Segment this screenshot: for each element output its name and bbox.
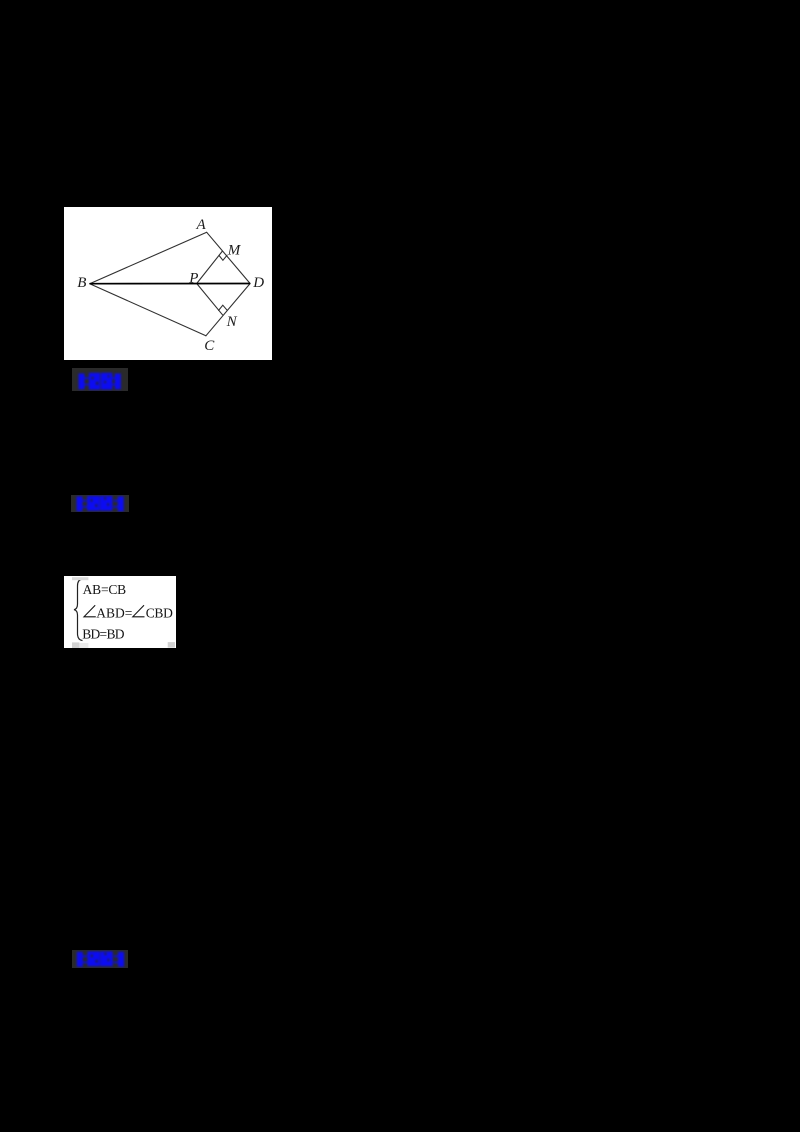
svg-text:C: C (204, 338, 215, 354)
geometry figure image (white box) (64, 207, 272, 360)
right angle mark at N (219, 305, 228, 310)
wire BD (diagonal, bold) (90, 283, 250, 285)
highlighted label 2 (blue blurred CJK text on dark box) (71, 495, 129, 512)
highlighted label 3 (blue blurred CJK text on dark box) (72, 950, 128, 968)
svg-text:CBD: CBD (146, 605, 173, 620)
svg-text:N: N (226, 314, 238, 330)
angle symbol 1 (84, 605, 96, 617)
right angle mark at M (219, 255, 227, 260)
selection handle top-left (72, 577, 88, 580)
svg-text:BD=BD: BD=BD (82, 627, 125, 642)
selection handle bottom-right (168, 642, 175, 648)
wire AD (207, 232, 250, 283)
wire PM (197, 251, 223, 283)
svg-text:A: A (196, 217, 207, 233)
svg-text:D: D (252, 275, 264, 291)
angle symbol 2 (133, 605, 145, 617)
selection handle bottom-left (72, 642, 79, 648)
wire BC (90, 284, 206, 336)
svg-text:ABD=: ABD= (96, 605, 132, 620)
svg-text:M: M (227, 242, 242, 258)
left curly brace (74, 579, 83, 641)
svg-text:AB=CB: AB=CB (83, 582, 127, 597)
equation system image (white box with brace, selected handles) (64, 576, 176, 648)
highlighted label 1 (blue blurred CJK text on dark box) (72, 368, 128, 391)
svg-text:B: B (77, 275, 86, 291)
wire CD (206, 284, 250, 336)
wire PN (197, 284, 223, 315)
wire BA (90, 232, 207, 283)
selection handle bottom-left faint part (79, 643, 88, 648)
svg-text:P: P (188, 271, 198, 287)
